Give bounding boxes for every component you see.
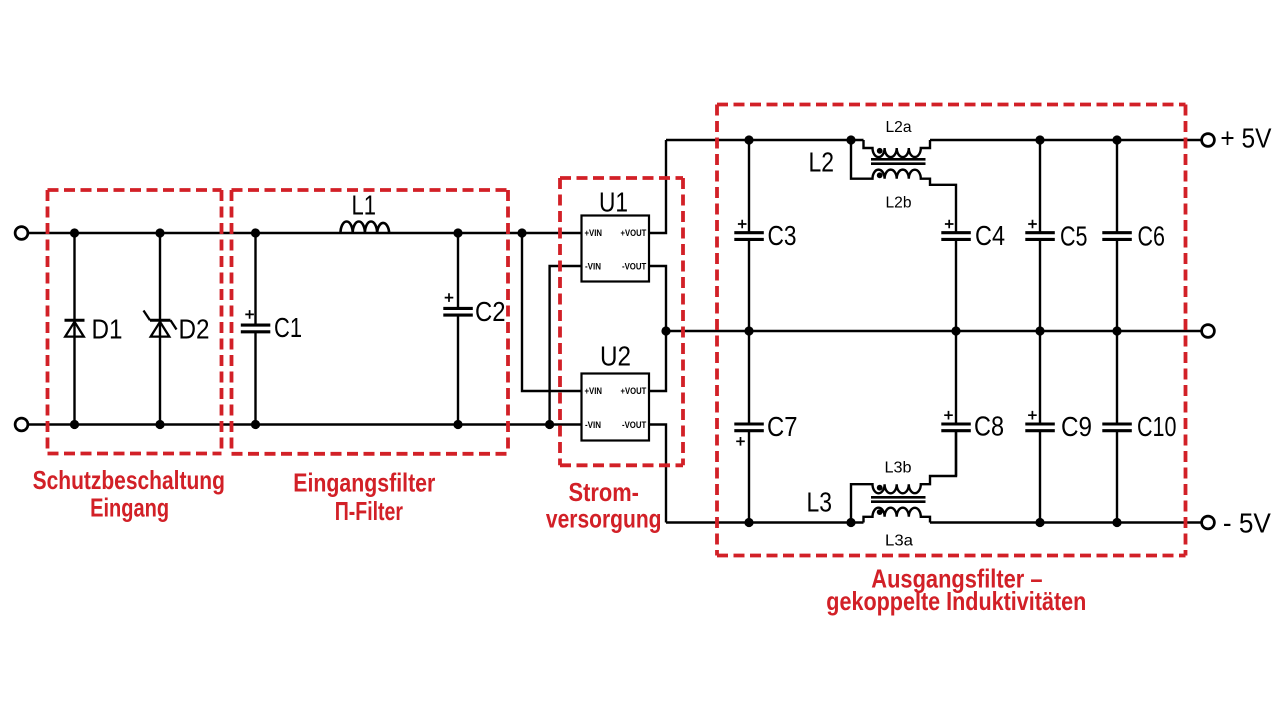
svg-text:C6: C6 — [1138, 221, 1166, 252]
red dashed box Eingangsfilter — [232, 190, 509, 454]
node mid U out — [661, 326, 670, 335]
svg-text:-VIN: -VIN — [585, 261, 601, 271]
wire C9 branch — [1039, 331, 1041, 523]
L2 phase dots — [877, 148, 883, 178]
wire bottom-right rail — [666, 521, 1202, 523]
node C4 mid — [951, 326, 960, 335]
diode D1 — [65, 320, 85, 336]
zener diode D2 — [144, 311, 177, 337]
wire U1 -VOUT / U2 +VOUT to mid node — [649, 266, 666, 391]
wire C10 branch — [1116, 331, 1118, 523]
svg-text:C5: C5 — [1060, 221, 1088, 252]
svg-text:C7: C7 — [767, 411, 798, 442]
svg-text:Eingangsfilter: Eingangsfilter — [293, 467, 435, 497]
wire C8 branch — [955, 331, 957, 476]
wire top-left rail — [28, 232, 582, 234]
node C1 bottom — [251, 420, 260, 429]
node U2 vin top — [517, 228, 526, 237]
wire U2 -VOUT to bottom rail — [649, 425, 666, 523]
wire U2 +VIN link — [522, 233, 582, 391]
wire C1 branch — [254, 233, 256, 425]
C4 polarity plus — [945, 220, 954, 229]
node C6 top — [1112, 135, 1121, 144]
svg-text:+ 5V: + 5V — [1220, 123, 1271, 154]
node D1 top — [70, 228, 79, 237]
terminal input top — [15, 227, 28, 240]
C1 polarity plus — [245, 310, 254, 319]
svg-text:+VOUT: +VOUT — [621, 228, 647, 238]
wire C7 branch — [748, 331, 750, 523]
wire bottom-left rail — [28, 423, 582, 425]
wire mid rail — [666, 330, 1202, 332]
coupled inductor L3 — [851, 431, 956, 523]
svg-text:Eingang: Eingang — [90, 493, 169, 523]
capacitor C8 — [941, 424, 971, 431]
svg-text:L3b: L3b — [885, 460, 912, 477]
wire C6 branch — [1116, 140, 1118, 331]
node C3 top — [744, 135, 753, 144]
coupled inductor L2 — [851, 140, 956, 233]
svg-text:-VIN: -VIN — [585, 420, 601, 430]
wire C3 branch — [748, 140, 750, 331]
capacitor C9 — [1025, 424, 1055, 431]
svg-text:C9: C9 — [1061, 411, 1092, 442]
C8 polarity plus — [944, 411, 953, 420]
DC/DC converter U1 — [582, 216, 650, 282]
wire C5 branch — [1039, 140, 1041, 331]
svg-text:-VOUT: -VOUT — [622, 261, 647, 271]
inductor L1 — [341, 221, 390, 233]
terminal input bottom — [15, 418, 28, 431]
svg-text:U2: U2 — [600, 341, 631, 372]
capacitor C5 — [1025, 233, 1055, 240]
svg-text:gekoppelte Induktivitäten: gekoppelte Induktivitäten — [826, 586, 1086, 616]
wire D1 branch — [73, 233, 75, 425]
svg-text:C4: C4 — [975, 220, 1005, 251]
C5 polarity plus — [1028, 220, 1037, 229]
wire C2 branch — [457, 233, 459, 425]
svg-text:C2: C2 — [475, 296, 506, 327]
node D2 top — [155, 228, 164, 237]
wire top-right rail — [666, 139, 1202, 141]
capacitor C3 — [734, 233, 764, 240]
node C7 bottom — [744, 518, 753, 527]
svg-text:L2b: L2b — [886, 195, 912, 212]
svg-text:-VOUT: -VOUT — [622, 420, 647, 430]
svg-text:U1: U1 — [599, 187, 628, 218]
C7 polarity plus — [736, 437, 745, 446]
wire C4 branch — [955, 239, 957, 331]
wire U1 +VOUT to top rail — [649, 140, 666, 233]
terminals — [15, 134, 1214, 529]
svg-text:versorgung: versorgung — [546, 503, 662, 533]
C3 polarity plus — [738, 220, 747, 229]
svg-text:+VIN: +VIN — [585, 228, 603, 238]
wire U1 -VIN link — [550, 266, 582, 425]
capacitor C1 — [241, 325, 270, 332]
svg-text:D1: D1 — [92, 313, 123, 344]
node C5 top — [1035, 135, 1044, 144]
C2 polarity plus — [445, 293, 454, 302]
node L2 top — [846, 135, 855, 144]
capacitor C2 — [443, 308, 473, 315]
node C5 mid — [1035, 326, 1044, 335]
terminal +5V — [1202, 134, 1215, 147]
svg-text:C1: C1 — [274, 312, 302, 343]
svg-text:Schutzbeschaltung: Schutzbeschaltung — [33, 465, 225, 495]
node D1 bottom — [70, 420, 79, 429]
node C3 mid — [744, 326, 753, 335]
svg-text:D2: D2 — [179, 313, 210, 344]
svg-text:L1: L1 — [352, 190, 377, 221]
node C2 top — [453, 228, 462, 237]
capacitor C10 — [1102, 424, 1132, 431]
C9 polarity plus — [1028, 411, 1037, 420]
terminal 0V — [1202, 325, 1215, 338]
svg-text:L2: L2 — [809, 146, 835, 177]
red dashed box Ausgangsfilter — [717, 105, 1186, 556]
DC/DC converter U2 — [582, 374, 650, 441]
svg-text:+VOUT: +VOUT — [621, 386, 647, 396]
red dashed box Schutzbeschaltung — [48, 190, 222, 454]
svg-text:C8: C8 — [974, 411, 1004, 442]
node C9 bottom — [1035, 518, 1044, 527]
capacitor C7 — [734, 424, 764, 431]
red dashed box Stromversorgung — [560, 178, 683, 465]
svg-text:L3a: L3a — [885, 533, 913, 550]
capacitor C4 — [941, 233, 971, 240]
svg-text:L2a: L2a — [886, 119, 912, 136]
node C2 bottom — [453, 420, 462, 429]
L3 phase dots — [877, 485, 883, 515]
node D2 bottom — [155, 420, 164, 429]
svg-text:+VIN: +VIN — [585, 386, 603, 396]
svg-text:- 5V: - 5V — [1223, 507, 1271, 538]
node C6 mid — [1112, 326, 1121, 335]
svg-text:C10: C10 — [1137, 411, 1177, 442]
node C1 top — [251, 228, 260, 237]
svg-text:C3: C3 — [768, 220, 797, 251]
svg-text:Π-Filter: Π-Filter — [335, 496, 403, 526]
wire D2 branch — [159, 233, 161, 425]
capacitor C6 — [1102, 233, 1132, 240]
terminal -5V — [1202, 516, 1215, 529]
svg-text:L3: L3 — [807, 487, 833, 518]
node -VIN junction — [545, 420, 554, 429]
node L3 bottom — [846, 518, 855, 527]
node C10 bottom — [1112, 518, 1121, 527]
